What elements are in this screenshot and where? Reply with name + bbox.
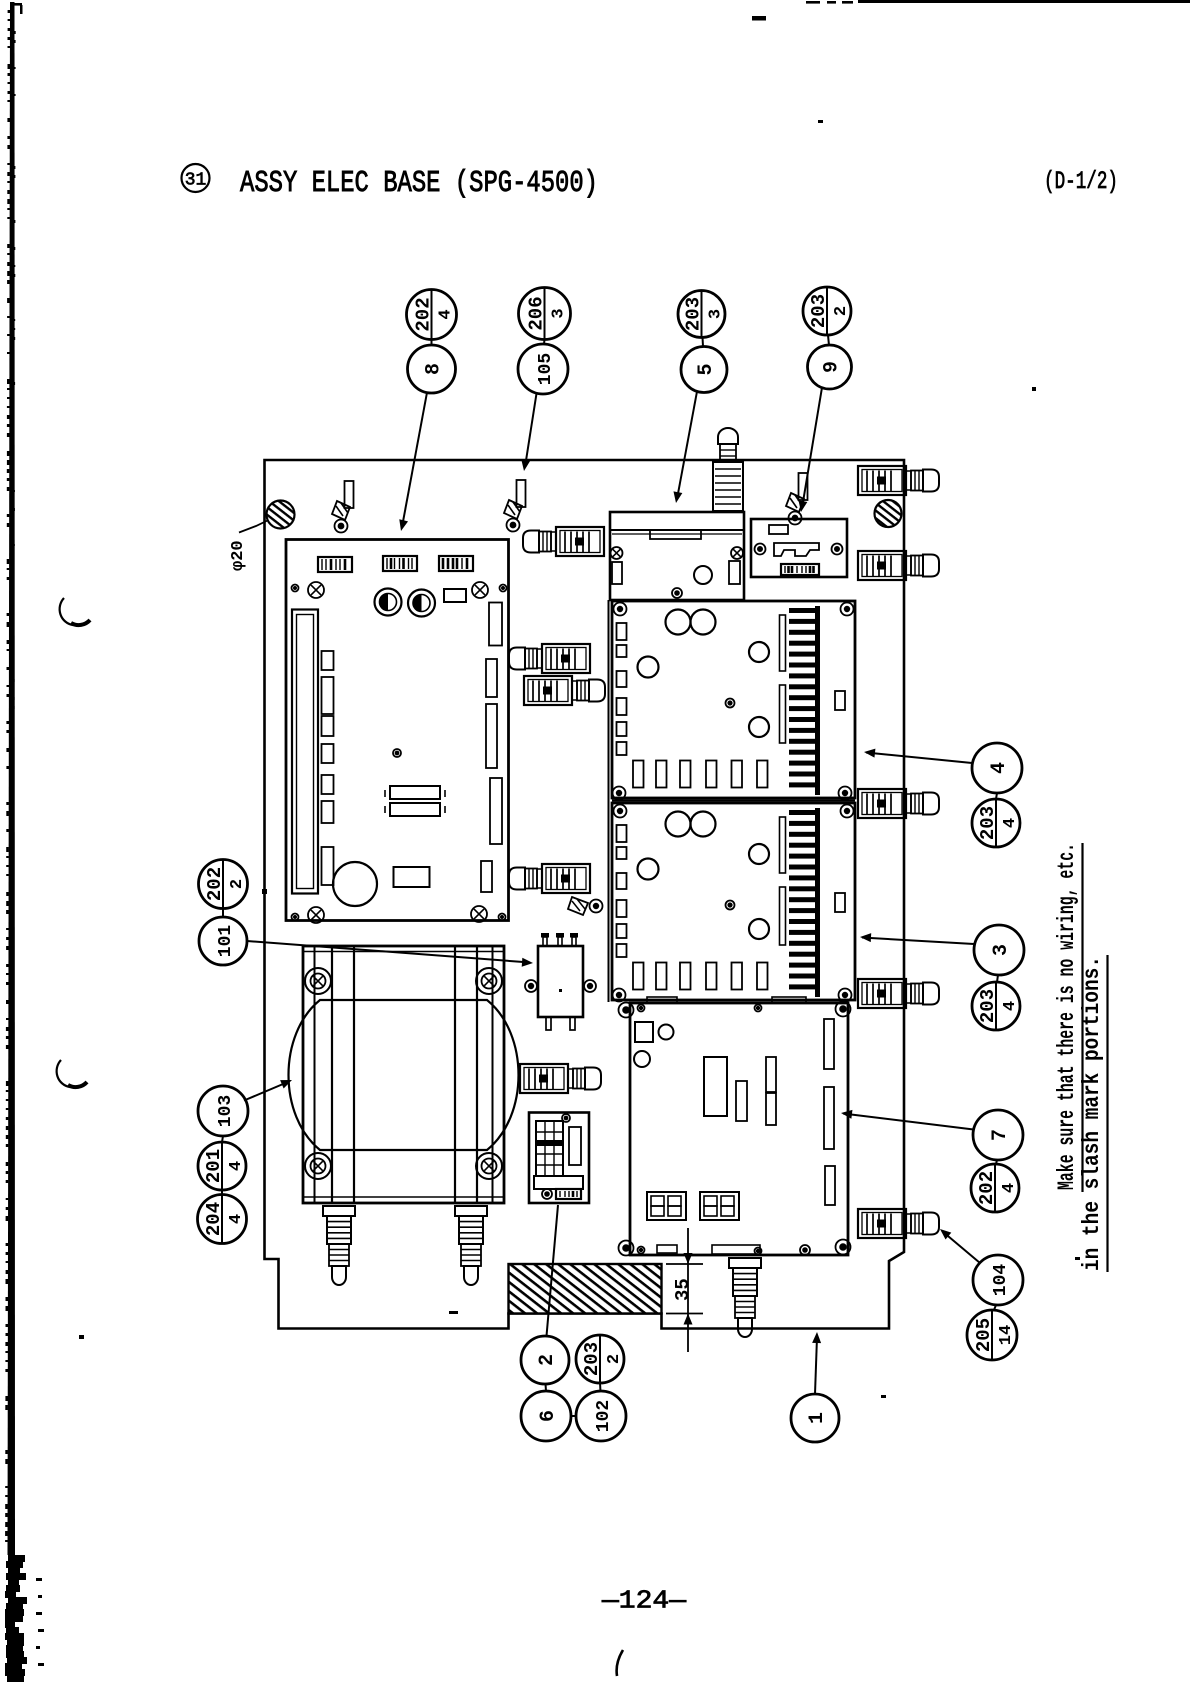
PCB8 edge connector left	[292, 610, 318, 894]
relay part 101 body	[538, 946, 583, 1017]
svg-text:3: 3	[990, 944, 1013, 956]
PCB7 top tabs	[647, 997, 677, 1003]
vertical clamp below transformer left	[323, 1206, 355, 1216]
balloon 101	[199, 917, 247, 965]
leader 103	[244, 1082, 289, 1101]
part 2 top screw	[562, 1114, 570, 1122]
module screws	[614, 805, 627, 818]
balloon 203/2 bottom	[576, 1335, 624, 1383]
svg-text:202: 202	[204, 867, 226, 901]
balloon 9	[808, 345, 852, 389]
relay 101 top tabs	[543, 937, 547, 946]
svg-text:205: 205	[973, 1318, 995, 1352]
svg-text:104: 104	[991, 1264, 1011, 1297]
svg-text:206: 206	[526, 296, 548, 330]
svg-text:35: 35	[672, 1278, 694, 1301]
punch hole ghost bottom	[57, 1060, 70, 1087]
part 9 small rect	[769, 525, 788, 534]
leader 4	[866, 753, 972, 764]
module heatsink fins	[789, 608, 816, 613]
svg-text:2: 2	[605, 1354, 624, 1364]
cable clamp mid top (plug left)	[523, 531, 539, 553]
svg-text:4: 4	[1001, 1001, 1020, 1011]
base plate part 1 outline	[265, 460, 905, 1329]
svg-text:Make sure that there is no wir: Make sure that there is no wiring, etc.	[1054, 843, 1080, 1190]
cable clamp right mid	[858, 789, 906, 818]
part 2 bottom bar	[534, 1176, 583, 1189]
PCB8 right connectors	[489, 603, 502, 646]
module subplate line	[608, 600, 610, 1002]
module heatsink left rails	[780, 615, 786, 671]
bracket right of part 5	[799, 473, 808, 500]
part 9 screws	[755, 544, 766, 555]
svg-text:14: 14	[997, 1325, 1016, 1345]
module left pads	[617, 623, 627, 640]
cable clamp right top 1	[858, 466, 906, 495]
balloon 205/14	[967, 1310, 1017, 1360]
punch hole ghost top	[60, 598, 73, 625]
svg-text:102: 102	[594, 1400, 614, 1432]
module divider line	[612, 799, 855, 801]
svg-text:4: 4	[988, 762, 1011, 774]
balloon 203/4 lower	[972, 982, 1020, 1030]
leader 1	[815, 1337, 817, 1394]
dimension line 35	[687, 1228, 689, 1352]
balloon 4	[972, 743, 1022, 793]
hatched slash-mark strip	[509, 1264, 662, 1314]
module holes	[666, 610, 691, 635]
power module part 3 outline	[612, 803, 855, 1000]
balloon 7	[973, 1110, 1023, 1160]
balloon 206/3	[519, 288, 571, 340]
part 2 hatched tag	[556, 1189, 581, 1199]
svg-text:4: 4	[1001, 818, 1020, 828]
leader 3	[862, 938, 974, 945]
bracket top-left (item 206 fixing)	[345, 481, 354, 508]
svg-text:in the slash mark portions.: in the slash mark portions.	[1079, 956, 1105, 1271]
circled item number 31	[182, 164, 210, 192]
PCB7 IC blocks	[704, 1057, 727, 1116]
module holes	[666, 812, 691, 837]
leader 2	[547, 1205, 559, 1336]
leader phi20	[239, 521, 268, 533]
part 5 bracket PCB outline	[610, 512, 744, 600]
scan artifact left bar	[8, 2, 16, 1555]
transformer corner screws	[305, 968, 331, 994]
balloon 3	[974, 925, 1024, 975]
PCB8 small rect right of pots	[444, 589, 466, 602]
balloon 104	[973, 1255, 1023, 1305]
svg-text:2: 2	[832, 306, 851, 316]
PCB part 7 outline	[630, 1003, 848, 1255]
PCB8 left pin rects	[322, 651, 334, 670]
leader 9	[802, 388, 822, 509]
balloon 8	[408, 345, 456, 393]
svg-text:ASSY ELEC BASE (SPG-4500): ASSY ELEC BASE (SPG-4500)	[240, 166, 598, 201]
svg-text:(D-1/2): (D-1/2)	[1044, 167, 1118, 196]
leader 101	[247, 941, 530, 963]
transformer straps	[331, 946, 333, 1203]
balloon 202/2 left	[199, 860, 248, 909]
svg-text:103: 103	[216, 1095, 236, 1127]
svg-text:203: 203	[581, 1342, 603, 1376]
balloon 203/3	[678, 291, 725, 338]
cable clamp mid D (plug right)	[520, 1064, 568, 1093]
PCB7 bottom tabs	[657, 1245, 677, 1253]
balloon 204/4	[198, 1195, 247, 1244]
module heatsink fins	[789, 810, 816, 815]
PCB8 potentiometer VR1	[375, 589, 402, 616]
cable clamp mid B (plug right)	[524, 676, 572, 705]
part 2 slim rect	[569, 1127, 581, 1165]
PCB8 connector CN1 (hatched)	[318, 557, 352, 572]
svg-text:203: 203	[683, 297, 705, 331]
PCB part 8 outline	[286, 540, 509, 921]
part 5 screws	[611, 547, 623, 559]
svg-text:3: 3	[707, 309, 726, 319]
part 5 side connectors	[612, 562, 622, 584]
svg-text:4: 4	[437, 309, 456, 319]
balloon 5	[681, 347, 727, 393]
module heatsink left rails	[780, 817, 786, 873]
part 5 hole	[694, 566, 712, 584]
transformer side plates	[314, 946, 316, 1203]
module left pads	[617, 825, 627, 842]
power module part 4 outline	[612, 601, 855, 798]
svg-text:4: 4	[227, 1161, 246, 1171]
PCB7 corner screws	[619, 1003, 634, 1018]
PCB8 test point dot	[393, 749, 401, 757]
balloon 202/4 lower	[971, 1164, 1019, 1212]
svg-text:202: 202	[413, 297, 435, 331]
cable clamp mid C (plug left)	[509, 868, 525, 890]
balloon 105	[518, 344, 568, 394]
PCB7 right connectors	[824, 1019, 834, 1069]
relay 101 side screws	[525, 980, 537, 992]
PCB8 connector CN2 (hatched)	[383, 556, 417, 571]
svg-text:6: 6	[537, 1410, 560, 1422]
svg-text:9: 9	[821, 361, 844, 373]
PCB8 rect component	[394, 867, 430, 887]
balloon 6	[521, 1391, 571, 1441]
scan artifact top right line	[858, 0, 1190, 3]
PCB8 potentiometer VR2	[408, 590, 435, 617]
svg-text:101: 101	[216, 925, 236, 958]
part 9 bracket outline	[751, 519, 847, 577]
leader 105	[525, 394, 537, 468]
part 2 screw	[542, 1189, 552, 1199]
part 2 grid connector	[536, 1121, 563, 1176]
balloon 203/4 upper	[972, 799, 1020, 847]
svg-text:203: 203	[977, 989, 999, 1023]
balloon 1	[791, 1394, 839, 1442]
transformer part 103 frame	[303, 946, 504, 1203]
hatched hole right	[875, 500, 902, 527]
svg-text:8: 8	[423, 363, 446, 375]
vertical clamp bottom center with bolt	[729, 1258, 761, 1268]
cable clamp mid A (plug left)	[509, 648, 525, 670]
svg-text:105: 105	[536, 353, 556, 385]
PCB8 corner screws	[308, 582, 324, 598]
PCB7 round holes	[659, 1025, 674, 1040]
relay 101 bottom tabs	[546, 1017, 551, 1030]
part 9 cutout	[774, 543, 819, 556]
cable clamp right top 2	[858, 551, 906, 580]
PCB8 capacitor big circle	[333, 862, 377, 906]
cable clamp right low	[858, 979, 906, 1008]
svg-text:204: 204	[203, 1202, 225, 1236]
module screws	[614, 603, 627, 616]
svg-text:3: 3	[550, 308, 569, 318]
svg-text:5: 5	[695, 363, 718, 375]
svg-text:203: 203	[977, 806, 999, 840]
svg-text:2: 2	[536, 1354, 559, 1366]
balloon 2	[521, 1336, 569, 1384]
PCB8 connector CN3 (hatched)	[439, 556, 473, 571]
part 5 small screw	[672, 588, 682, 598]
bracket top-center item 105	[517, 480, 526, 507]
PCB8 bottom-right bracket	[568, 897, 588, 915]
part 2 outline	[529, 1113, 589, 1204]
svg-text:—124—: —124—	[601, 1586, 687, 1616]
balloon 202/4 top	[407, 290, 457, 340]
vertical clamp below transformer right	[455, 1206, 487, 1216]
part 5 inner rect	[650, 530, 701, 539]
balloon 103	[198, 1086, 248, 1136]
leader 5	[677, 392, 697, 500]
svg-text:203: 203	[808, 294, 830, 328]
PCB8 relay K1	[390, 786, 440, 799]
svg-text:2: 2	[228, 879, 247, 889]
hatched hole phi20	[267, 501, 295, 529]
cable clamp right bottom (item 104 target)	[858, 1209, 906, 1238]
part 9 bottom connector	[781, 564, 819, 575]
transformer coil outline	[289, 1000, 519, 1150]
leader 8	[402, 393, 427, 528]
PCB7 square comp	[635, 1022, 653, 1042]
svg-text:4: 4	[227, 1214, 246, 1224]
balloon 203/2	[803, 287, 851, 335]
balloon 201/4	[198, 1142, 246, 1190]
svg-text:φ20: φ20	[229, 540, 248, 571]
module bottom slots	[633, 963, 644, 990]
svg-text:31: 31	[185, 171, 207, 191]
bottom pen mark	[617, 1650, 623, 1676]
leader 104	[942, 1231, 980, 1263]
module aux rect	[835, 691, 845, 710]
svg-text:202: 202	[976, 1171, 998, 1205]
svg-text:1: 1	[806, 1412, 829, 1424]
PCB7 7segment display block 1	[647, 1192, 686, 1220]
module aux rect	[835, 893, 845, 912]
plate edge notch mark	[262, 889, 267, 894]
balloon 102	[576, 1391, 626, 1441]
svg-text:201: 201	[203, 1149, 225, 1183]
vertical clamp top center with bolt	[718, 428, 738, 444]
module bottom slots	[633, 761, 644, 788]
svg-text:7: 7	[989, 1129, 1012, 1141]
PCB7 7segment display block 2	[700, 1192, 739, 1220]
leader 7	[843, 1114, 974, 1130]
svg-text:4: 4	[1000, 1183, 1019, 1193]
